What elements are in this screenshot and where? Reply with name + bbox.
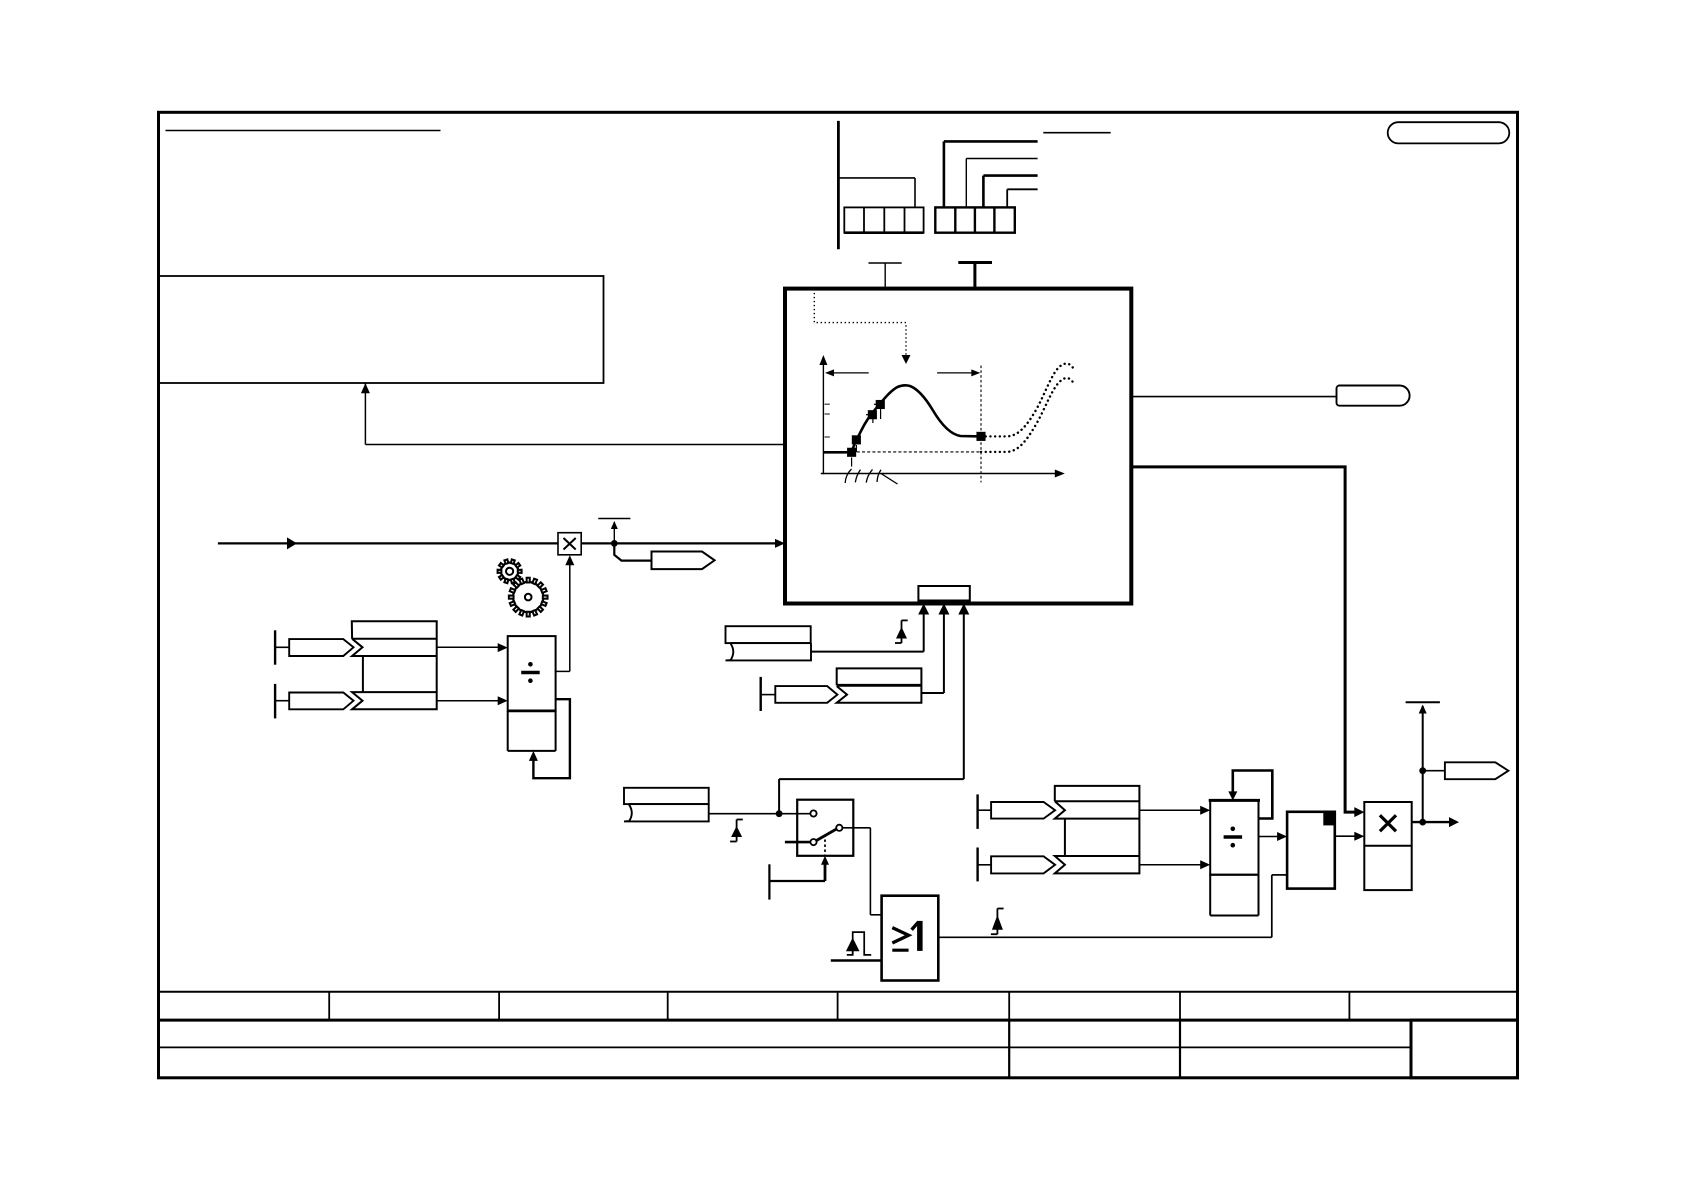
wire right block to divider upper xyxy=(1139,806,1210,815)
switch actuation dashed line xyxy=(824,835,826,856)
parameter connector T3 xyxy=(598,519,630,544)
wire divider to sampler xyxy=(1259,832,1288,841)
divider feedback loop xyxy=(529,699,570,778)
y-axis tick 1 xyxy=(825,403,830,405)
bit 2 wire xyxy=(983,176,1037,208)
wire right block to divider lower xyxy=(1139,860,1210,869)
leader line below axis xyxy=(881,474,898,485)
riser from divider output to multiplier xyxy=(565,555,574,671)
wire block to divider lower xyxy=(437,696,508,705)
axis break mark 2 xyxy=(866,469,881,482)
wire from-connector to main block xyxy=(811,604,929,652)
function diagram number pill (top right) xyxy=(1388,122,1510,143)
reference pill (right) xyxy=(1337,386,1410,406)
dashed base level line xyxy=(852,451,981,453)
control word bus vertical line xyxy=(837,121,840,249)
wire from main block to annotation rectangle xyxy=(361,383,785,444)
switch contact input b xyxy=(810,839,816,845)
span arrow right xyxy=(937,369,980,376)
parameter connector T4 xyxy=(1406,702,1440,822)
axis break mark 1 xyxy=(845,469,860,483)
title block lower column divider 1 xyxy=(1008,1020,1010,1078)
changeover switch box xyxy=(797,800,853,856)
input connector flag 4 xyxy=(991,802,1055,819)
goto connector flag (output) xyxy=(1445,762,1509,779)
dotted continuation curve upper xyxy=(981,364,1074,437)
parameter connector T2 xyxy=(958,263,992,289)
status word bit box group 1 xyxy=(844,207,923,232)
rising edge pulse symbol (OR input) xyxy=(846,932,871,955)
input connector flag 3 xyxy=(775,686,837,703)
wire sampler to multiplier right xyxy=(1335,832,1365,841)
curve point marker 2 xyxy=(852,435,861,444)
graph x-axis xyxy=(821,470,1065,478)
junction dot to output flag xyxy=(1419,767,1426,774)
multiplier output wire xyxy=(1412,817,1459,827)
marker 3 leader tick xyxy=(866,415,873,423)
junction dot on speed wire xyxy=(611,540,618,547)
multiplier box on wire xyxy=(558,533,581,555)
multiplier box right xyxy=(1364,802,1411,890)
span arrow left xyxy=(825,369,869,376)
wire from-connector to switch xyxy=(709,813,811,815)
signal label underline (top) xyxy=(1043,132,1110,134)
terminal bar input 1 xyxy=(275,630,289,664)
marker 1 leader tick xyxy=(851,458,853,467)
switch contact input a xyxy=(810,810,816,816)
branch to goto flag xyxy=(614,543,651,560)
y-axis tick 2 xyxy=(825,413,830,415)
outer drawing frame xyxy=(159,112,1518,1078)
title block row divider light xyxy=(159,1046,1412,1048)
divider output wire up xyxy=(556,670,570,672)
thick wire main block to multiplier xyxy=(1131,467,1364,817)
terminal bar input 3 xyxy=(761,677,776,711)
OR gate lower input wire xyxy=(831,959,882,961)
divider block left xyxy=(508,636,556,751)
wire from bus to status word box 1 xyxy=(838,178,915,208)
gear icon large xyxy=(509,578,548,617)
wire block to divider upper xyxy=(437,643,508,652)
sheet title underline (top left) xyxy=(166,130,441,132)
graph y-axis xyxy=(819,355,827,474)
friction characteristic curve xyxy=(823,385,981,452)
wire switch branch to main block xyxy=(779,604,969,814)
title block header column dividers xyxy=(329,992,1349,1020)
stacked connector block right xyxy=(1055,786,1140,874)
divider right feedback loop xyxy=(1228,771,1272,819)
dotted arrow onto curve peak xyxy=(902,355,911,364)
annotation rectangle (upper left) xyxy=(159,276,604,383)
OR gate output wire xyxy=(938,936,1272,938)
wire main block to reference pill xyxy=(1131,396,1336,398)
terminal bar input 5 xyxy=(978,848,992,882)
marker 2 leader tick xyxy=(855,445,857,452)
input connector flag 1 xyxy=(289,639,353,656)
junction dot at switch input xyxy=(776,810,783,817)
connector block middle xyxy=(837,668,922,702)
vertical dashed limit line xyxy=(980,366,982,483)
goto connector flag (speed) xyxy=(652,552,715,570)
construction dotted corner line xyxy=(814,293,906,356)
switch output wire xyxy=(842,828,881,915)
rising edge symbol 2 xyxy=(730,820,743,842)
switch control riser xyxy=(821,856,829,881)
wire middle block to main block xyxy=(921,604,949,694)
parameter connector T1 xyxy=(869,263,902,289)
divide symbol left xyxy=(521,662,540,683)
switch input b stub xyxy=(785,841,811,844)
speed setpoint wire xyxy=(218,537,558,549)
bit 3 wire xyxy=(1007,189,1037,207)
curve point marker 3 xyxy=(868,410,877,419)
divider block right xyxy=(1209,800,1260,915)
OR gate label xyxy=(892,921,922,951)
sampler corner marker xyxy=(1323,813,1334,826)
terminal bar input 4 xyxy=(978,794,992,829)
output junction dot xyxy=(1419,819,1426,826)
switch lever xyxy=(816,829,836,841)
stacked connector block left xyxy=(352,621,437,709)
curve point marker 4 xyxy=(876,400,885,409)
input connector flag 5 xyxy=(991,856,1055,873)
switch contact output xyxy=(836,825,842,831)
input connector flag 2 xyxy=(289,693,353,710)
sheet number box (heavy) xyxy=(1411,1020,1518,1078)
y-axis tick 3 xyxy=(825,436,830,438)
title block lower column divider 2 xyxy=(1179,1020,1181,1078)
bit 1 wire xyxy=(966,159,1037,208)
title block row divider heavy xyxy=(159,1019,1518,1022)
parameter sub-box at block bottom xyxy=(918,586,969,601)
bit 0 wire xyxy=(944,141,1038,207)
sampler box xyxy=(1287,812,1335,889)
rising edge symbol 3 xyxy=(991,909,1004,935)
wire from multiplier to main block xyxy=(581,539,785,548)
riser OR output to sampler xyxy=(1272,875,1287,937)
dotted continuation curve lower xyxy=(981,378,1074,452)
status word bit box group 2 xyxy=(935,207,1015,232)
wire to output flag xyxy=(1423,770,1445,772)
marker 4 leader tick xyxy=(874,404,881,419)
multiply symbol right xyxy=(1380,815,1396,831)
terminal bar input 2 xyxy=(275,684,289,719)
curve point marker 5 xyxy=(977,432,986,441)
from-connector box lower (two rows) xyxy=(624,788,709,822)
switch control terminal xyxy=(769,864,825,899)
curve point marker 1 xyxy=(847,448,856,457)
main function block (friction characteristic) xyxy=(785,289,1131,604)
from-connector box upper (two rows) xyxy=(726,626,812,660)
OR gate box xyxy=(882,896,939,981)
rising edge symbol 1 xyxy=(895,620,908,643)
gear icon small xyxy=(498,559,522,583)
title block top rule xyxy=(159,991,1518,993)
divide symbol right xyxy=(1224,827,1243,848)
